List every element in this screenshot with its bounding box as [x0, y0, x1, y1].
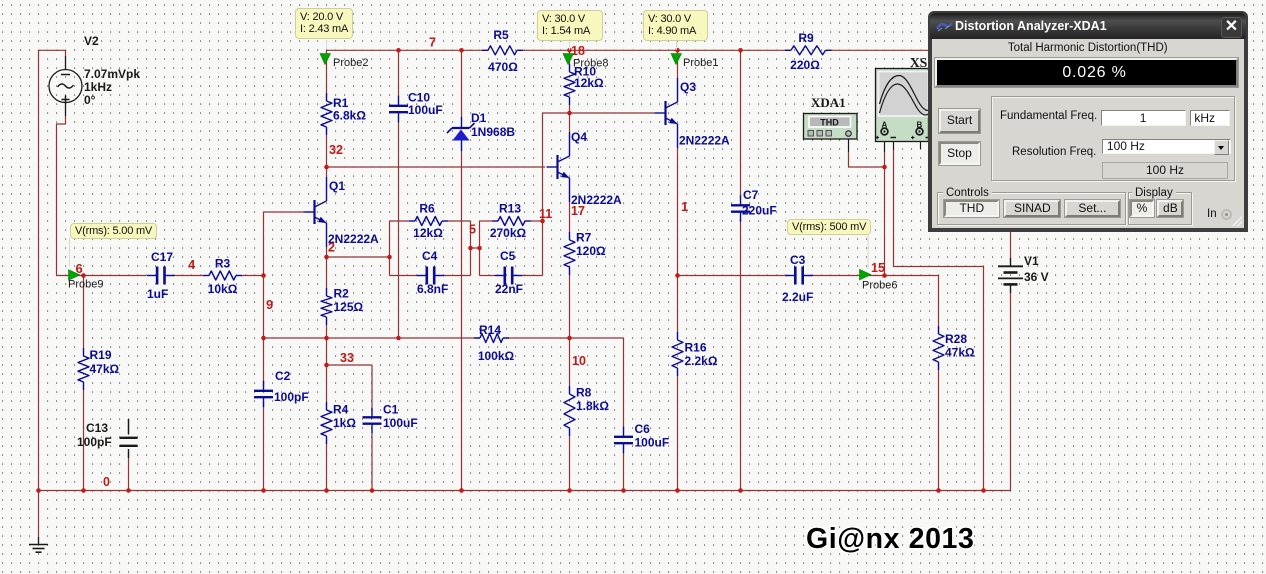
svg-text:9: 9 — [266, 297, 273, 312]
svg-text:R6: R6 — [419, 202, 435, 216]
wire R19 branch — [83, 276, 85, 491]
resistor R9 — [785, 31, 832, 72]
resistor R1 — [321, 93, 366, 135]
svg-text:V2: V2 — [84, 34, 99, 48]
svg-text:1: 1 — [681, 199, 688, 214]
svg-text:Probe8: Probe8 — [573, 58, 608, 70]
svg-text:R3: R3 — [215, 257, 231, 271]
wire node 4 C17 to R3 — [172, 275, 204, 277]
resistor R2 — [321, 287, 364, 326]
svg-text:C2: C2 — [275, 369, 291, 383]
svg-text:C7: C7 — [743, 188, 759, 202]
resistor R4 — [321, 402, 356, 444]
junction dot node 33 — [324, 363, 329, 368]
svg-text:6.8nF: 6.8nF — [417, 282, 448, 296]
probe Probe9 — [68, 270, 103, 291]
svg-text:Probe9: Probe9 — [68, 279, 103, 291]
stop button — [939, 142, 980, 166]
probe Probe6 — [860, 269, 898, 291]
annotation Vrms 5.00 mV — [70, 223, 157, 239]
svg-text:R2: R2 — [334, 287, 350, 301]
svg-text:7: 7 — [429, 36, 436, 50]
svg-text:R19: R19 — [90, 348, 112, 362]
svg-text:C3: C3 — [790, 253, 806, 267]
wire Q3 collector to rail — [677, 50, 679, 78]
kHz unit box — [1190, 110, 1230, 126]
annotation V:30.0V I:4.90mA — [643, 10, 708, 41]
svg-text:100pF: 100pF — [274, 390, 309, 404]
svg-text:4: 4 — [188, 257, 196, 272]
wire bottom ground rail node 0 — [39, 490, 1011, 492]
svg-text:XS: XS — [910, 55, 927, 70]
transistor Q4 — [547, 130, 623, 207]
zener diode D1 — [447, 111, 515, 151]
wire Q4 emitter to R7 — [569, 202, 571, 338]
svg-text:100pF: 100pF — [77, 435, 112, 449]
svg-text:220Ω: 220Ω — [790, 58, 820, 72]
svg-text:R4: R4 — [333, 403, 349, 417]
wire Q1 collector to node 32 — [326, 167, 328, 177]
svg-text:C17: C17 — [151, 250, 173, 264]
svg-text:100uF: 100uF — [383, 416, 418, 430]
ac source V2 — [49, 34, 140, 116]
wire R8 branch — [569, 338, 571, 491]
oscilloscope icon XSC1 — [876, 55, 929, 142]
wire node 32 to Q4 base — [327, 166, 546, 168]
dialog body — [932, 39, 1244, 228]
resistor R3 — [203, 257, 242, 297]
wire Q4 collector — [569, 113, 571, 132]
svg-text:Probe6: Probe6 — [862, 280, 897, 292]
svg-text:100uF: 100uF — [408, 103, 443, 117]
svg-text:D1: D1 — [471, 111, 487, 125]
probe Probe8 — [563, 54, 608, 70]
svg-text:1kHz: 1kHz — [84, 80, 112, 94]
resistor R10 — [564, 64, 604, 105]
svg-text:47kΩ: 47kΩ — [90, 362, 120, 376]
junction dots node 5 — [468, 246, 482, 251]
svg-text:C6: C6 — [635, 422, 651, 436]
svg-text:C5: C5 — [500, 249, 516, 263]
wire node 2 to R6C4 loop — [327, 256, 390, 258]
wire input node 6 to C17 — [84, 275, 147, 277]
capacitor C17 — [147, 250, 175, 301]
svg-text:1N968B: 1N968B — [471, 125, 515, 139]
annotation Vrms 500 mV — [787, 219, 871, 235]
svg-text:C4: C4 — [422, 249, 438, 263]
wire battery V1 branch — [1010, 231, 1012, 491]
svg-text:Q3: Q3 — [680, 80, 696, 94]
svg-text:36 V: 36 V — [1024, 270, 1049, 284]
capacitor C4 — [417, 249, 449, 296]
svg-text:0°: 0° — [84, 93, 96, 107]
transistor Q3 — [655, 78, 731, 148]
wire C7 branch — [740, 50, 742, 490]
svg-text:R5: R5 — [493, 28, 509, 42]
wire node 9 column — [263, 212, 265, 491]
wire top supply rail node 7 — [39, 50, 66, 490]
svg-text:5: 5 — [469, 223, 476, 237]
resize grip — [1232, 216, 1242, 226]
capacitor C1 — [363, 403, 418, 434]
wire node 9 feedback row — [264, 337, 570, 339]
wire scope A terminal to node 15 — [884, 135, 886, 276]
svg-text:C13: C13 — [86, 421, 108, 435]
wire C3 to node 15 — [809, 275, 885, 277]
resistor R14 — [474, 323, 515, 363]
close button — [1221, 17, 1242, 38]
In LED — [1207, 208, 1217, 220]
title icon — [936, 20, 953, 33]
resistor R6 — [409, 202, 448, 241]
svg-text:R8: R8 — [576, 386, 592, 400]
Set button — [1065, 200, 1121, 217]
controls group box — [937, 192, 1126, 225]
svg-text:R16: R16 — [685, 341, 707, 355]
wire node 11 row R10 to Q3 base — [543, 112, 655, 114]
capacitor C10 — [389, 91, 443, 123]
wire XDA1 terminal — [849, 139, 885, 167]
svg-text:17: 17 — [571, 204, 585, 218]
wire top rail right — [327, 49, 930, 51]
junction dots bottom rail — [36, 488, 986, 493]
leader lines from measurement boxes — [70, 39, 869, 269]
probe Probe2 — [320, 54, 368, 70]
wire R1 to node 32 junction — [326, 135, 328, 167]
wire node 5 link — [471, 247, 480, 249]
svg-text:R13: R13 — [499, 202, 521, 216]
svg-text:32: 32 — [329, 143, 343, 157]
svg-text:1.8kΩ: 1.8kΩ — [576, 399, 609, 413]
svg-text:V1: V1 — [1024, 254, 1039, 268]
watermark Gi@nx 2013 — [806, 523, 974, 556]
capacitor C6 — [614, 422, 669, 453]
svg-text:47kΩ: 47kΩ — [945, 346, 975, 360]
svg-text:33: 33 — [340, 351, 354, 365]
resistor R13 — [490, 202, 531, 241]
capacitor C2 — [254, 369, 309, 407]
THD button — [944, 200, 999, 217]
svg-text:R7: R7 — [576, 231, 592, 245]
svg-text:Probe1: Probe1 — [683, 57, 718, 69]
percent button — [1130, 200, 1154, 217]
svg-text:7.07mVpk: 7.07mVpk — [84, 67, 140, 81]
wire R10 branch — [569, 50, 571, 113]
svg-text:11: 11 — [539, 207, 552, 221]
THD readout display — [935, 58, 1238, 87]
resolution freq label — [1012, 146, 1096, 158]
svg-text:125Ω: 125Ω — [334, 300, 364, 314]
resolution readout — [1102, 162, 1228, 179]
wire node 15 to R28 — [885, 276, 939, 327]
annotation V:30.0V I:1.54mA — [537, 10, 603, 41]
wire C1 branch — [371, 365, 373, 491]
junction dot node 11 — [540, 111, 572, 224]
svg-text:C1: C1 — [383, 403, 399, 417]
svg-text:270kΩ: 270kΩ — [490, 226, 527, 240]
wire R2 branch — [326, 257, 328, 338]
junction dot node 9 input — [261, 273, 266, 278]
svg-text:15: 15 — [871, 261, 885, 275]
svg-text:12kΩ: 12kΩ — [413, 226, 443, 240]
wire R28 to ground rail — [938, 370, 940, 491]
capacitor C13 — [77, 419, 138, 458]
resistor R19 — [78, 348, 120, 390]
svg-text:THD: THD — [820, 118, 839, 128]
ground — [29, 491, 48, 553]
wire Q3 emitter node 1 — [677, 148, 679, 491]
resistor R5 — [482, 28, 523, 74]
wire Q1 base — [264, 211, 304, 213]
annotation V:20.0V I:2.43mA — [295, 8, 353, 39]
wire R6 C4 loop — [390, 221, 471, 276]
battery V1 — [998, 254, 1049, 293]
start button — [939, 109, 980, 133]
wire C10 branch — [398, 50, 400, 338]
resistor R16 — [672, 332, 718, 376]
junction dots node 32 — [324, 165, 329, 170]
svg-text:Q4: Q4 — [571, 130, 587, 144]
svg-text:2.2kΩ: 2.2kΩ — [685, 354, 718, 368]
svg-text:2N2222A: 2N2222A — [679, 134, 730, 148]
wire R4 branch — [326, 365, 328, 491]
display group box — [1128, 192, 1193, 225]
svg-text:120Ω: 120Ω — [576, 244, 606, 258]
resistor R28 — [933, 326, 975, 370]
junction dots node 9 row — [261, 336, 572, 341]
capacitor C5 — [495, 249, 523, 296]
svg-text:10: 10 — [572, 354, 586, 368]
svg-text:1kΩ: 1kΩ — [333, 416, 356, 430]
resolution combo — [1102, 139, 1231, 155]
svg-text:100uF: 100uF — [635, 436, 670, 450]
transistor Q1 — [304, 177, 380, 247]
probe Probe1 — [671, 54, 718, 70]
wire Q1 emitter to node 2 — [326, 247, 328, 257]
resistor R8 — [564, 386, 609, 437]
THD caption — [932, 42, 1244, 54]
wire R3 to node 9 column — [242, 275, 264, 277]
capacitor C3 — [782, 253, 813, 304]
junction dot node 6 — [81, 273, 86, 278]
distortion analyzer window XDA1 — [928, 11, 1248, 232]
settings group box — [991, 96, 1235, 181]
wire node 10 to C6 — [570, 338, 624, 427]
wire node 11 riser — [542, 113, 544, 221]
wire node 33 row — [327, 338, 373, 365]
svg-text:22nF: 22nF — [495, 282, 523, 296]
svg-text:2: 2 — [328, 241, 335, 255]
junction dot node 2 — [324, 255, 392, 260]
svg-text:R14: R14 — [479, 323, 501, 337]
svg-text:12kΩ: 12kΩ — [574, 76, 604, 90]
wire C6 to ground rail — [623, 453, 625, 491]
wire R13 C5 loop — [480, 221, 543, 276]
dB button — [1157, 200, 1183, 217]
svg-text:2N2222A: 2N2222A — [328, 232, 379, 246]
wire scope B stub — [920, 135, 922, 149]
instrument icon XDA1 — [804, 95, 858, 139]
svg-text:100kΩ: 100kΩ — [478, 349, 515, 363]
svg-text:XDA1: XDA1 — [811, 95, 846, 110]
svg-text:Probe2: Probe2 — [333, 57, 368, 69]
wire C13 branch — [128, 419, 130, 491]
svg-text:2.2uF: 2.2uF — [782, 290, 813, 304]
svg-text:Q1: Q1 — [329, 179, 345, 193]
wire D1 branch node 7 to 0 — [461, 50, 463, 490]
fundamental freq input — [1101, 110, 1186, 126]
svg-text:220uF: 220uF — [742, 204, 777, 218]
svg-text:6.8kΩ: 6.8kΩ — [333, 109, 366, 123]
resistor R7 — [564, 231, 606, 276]
wire V2 bottom to input node 6 — [57, 116, 84, 276]
SINAD button — [1004, 200, 1060, 217]
svg-text:10kΩ: 10kΩ — [208, 282, 238, 296]
wire scope A- to ground — [894, 137, 984, 491]
wire R1 branch — [326, 50, 328, 93]
svg-text:0: 0 — [103, 475, 110, 489]
svg-text:R9: R9 — [798, 31, 814, 45]
wire node 1 to C3 — [678, 275, 790, 277]
junction dots node 1 and 15 — [675, 165, 887, 278]
svg-text:1uF: 1uF — [147, 287, 168, 301]
svg-text:18: 18 — [571, 44, 585, 58]
fundamental freq label — [1000, 110, 1097, 122]
svg-text:R28: R28 — [945, 332, 967, 346]
title bar — [930, 13, 1246, 39]
junction dots top rail — [396, 48, 743, 53]
title text — [955, 19, 1107, 33]
wire V2 top to rail — [65, 50, 67, 56]
svg-text:470Ω: 470Ω — [488, 60, 518, 74]
capacitor C7 — [731, 188, 777, 222]
